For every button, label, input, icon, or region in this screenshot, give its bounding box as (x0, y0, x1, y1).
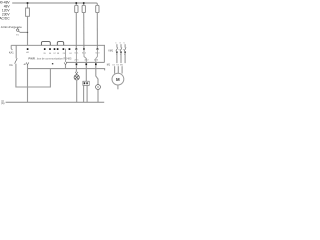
terminal 95 (44, 48, 46, 50)
wire rail left drop (11, 45, 12, 50)
wire control drop upper (27, 3, 29, 8)
svg-text:KA1: KA1 (9, 52, 14, 55)
svg-text:M: M (116, 77, 120, 82)
wire T2 inside block (84, 49, 86, 64)
terminal pole3 out (124, 51, 125, 53)
emergency stop S1 actuator stem (17, 27, 19, 29)
terminal 2/T1 (76, 63, 78, 65)
emergency stop S1 contact lever (18, 31, 20, 32)
wire L2 to block (83, 13, 85, 49)
node L2 tap on rail (83, 2, 85, 4)
breaker Q1 pole 3 lever (124, 47, 126, 51)
wire pole1 down (116, 53, 118, 63)
terminal 4/T2 (85, 63, 87, 65)
pin labels bottom terminal row (74, 60, 99, 62)
jumper link arch 1 (41, 42, 50, 46)
wire control drop to rail (27, 16, 29, 45)
breaker Q1 pole 1 stub (116, 44, 118, 47)
breaker Q1 pole 2 stub (120, 44, 122, 47)
jumper link arch 2 (57, 42, 63, 46)
contact KA1 lever (15, 58, 18, 63)
node control tap on rail (27, 2, 29, 4)
wire X1 right to bus (86, 85, 88, 102)
wire U1 to motor (114, 66, 116, 73)
svg-text:Arrêt d'urgence: Arrêt d'urgence (1, 25, 22, 29)
connector chevron lamp (75, 72, 78, 74)
fuse F3 L2 (82, 5, 85, 12)
svg-text:AC/DC: AC/DC (0, 16, 10, 20)
terminal 97 (54, 48, 56, 50)
terminal pole2 out (120, 51, 121, 53)
wire e-stop to control drop (20, 31, 28, 33)
terminal 1/L1 (76, 48, 78, 50)
svg-text:(A): (A) (1, 102, 4, 105)
fuse F2 L1 (75, 5, 78, 12)
wire W1 to motor (121, 66, 123, 73)
motor M1 circle (112, 73, 124, 85)
wire T3 to sensor (96, 65, 98, 85)
wire pole2 down (120, 53, 122, 63)
background (0, 0, 128, 108)
connector chevron A2 (64, 62, 67, 65)
wire lower horizontal link (28, 69, 105, 71)
breaker Q1 pole 3 stub (124, 44, 126, 47)
terminal 6/T3 (95, 63, 97, 65)
contact KA1 upper stub (15, 45, 17, 58)
wire bottom neutral bus (6, 101, 105, 103)
node e-stop junction (27, 32, 28, 33)
pin X1-1 (84, 82, 86, 84)
connector chevron coil (26, 62, 29, 64)
wire T1 to lamp (75, 65, 77, 72)
wire terminal rail of starter block (11, 44, 105, 46)
starter block right edge (103, 45, 105, 62)
sensor B1 center dot (97, 86, 98, 87)
terminal 5/L3 (97, 48, 99, 50)
node stray mark (52, 63, 53, 64)
wire motor earth stub (117, 85, 119, 89)
terminal 23 (63, 48, 65, 50)
wire T2 to connector box (85, 65, 87, 81)
terminal 3/L2 (83, 48, 85, 50)
terminal 96 (49, 48, 51, 50)
wire L1 drop (75, 3, 77, 5)
wire T1 inside block (75, 49, 77, 64)
fuse F4 L3 (96, 5, 99, 12)
breaker Q1 pole 2 lever (120, 47, 122, 51)
pin labels top terminal row (26, 51, 100, 55)
svg-text:..bus de communication RS485: ..bus de communication RS485 (35, 57, 72, 61)
sensor B1 circle (96, 85, 101, 90)
terminal A1 (27, 48, 29, 50)
wire A2 inside block (65, 49, 67, 62)
terminal 24 (69, 48, 71, 50)
breaker Q1 coupling dashes (116, 48, 125, 50)
pin X1-2 (86, 82, 88, 84)
svg-text:KM1: KM1 (108, 50, 113, 52)
wire A2 chevron to lower bus (65, 65, 67, 69)
wire L3 to block (96, 13, 98, 49)
emergency stop S1 mushroom head (17, 29, 19, 31)
wire lamp to bus (76, 80, 78, 103)
value label supply voltages (0, 0, 10, 20)
wire pole3 down (124, 53, 126, 63)
wire V1 to motor (117, 66, 119, 73)
pin labels breaker top 1 3 5 (115, 43, 125, 45)
starter block bottom edge (66, 61, 104, 63)
wire sensor to bus (97, 89, 99, 102)
wire L2 drop (83, 3, 85, 5)
wire KA1 branch down and right (16, 64, 51, 87)
svg-text:KA: KA (9, 64, 13, 67)
wire L1 to block (75, 13, 77, 49)
connector box X1 (83, 81, 89, 85)
wire coil return to bottom bus (27, 65, 29, 103)
terminal 98 (57, 48, 59, 50)
breaker Q1 pole 1 lever (116, 47, 118, 51)
fuse F1 control (26, 8, 30, 16)
wire X1 left to bus (83, 85, 85, 102)
wire T3 inside block (96, 49, 98, 64)
lamp H1 (74, 75, 79, 80)
svg-text:PWR: PWR (28, 57, 35, 61)
terminal pole1 out (116, 51, 117, 53)
node L1 tap on rail (76, 2, 78, 4)
pin labels breaker bottom 2 4 6 (116, 54, 126, 56)
wire top supply rail (12, 3, 97, 5)
